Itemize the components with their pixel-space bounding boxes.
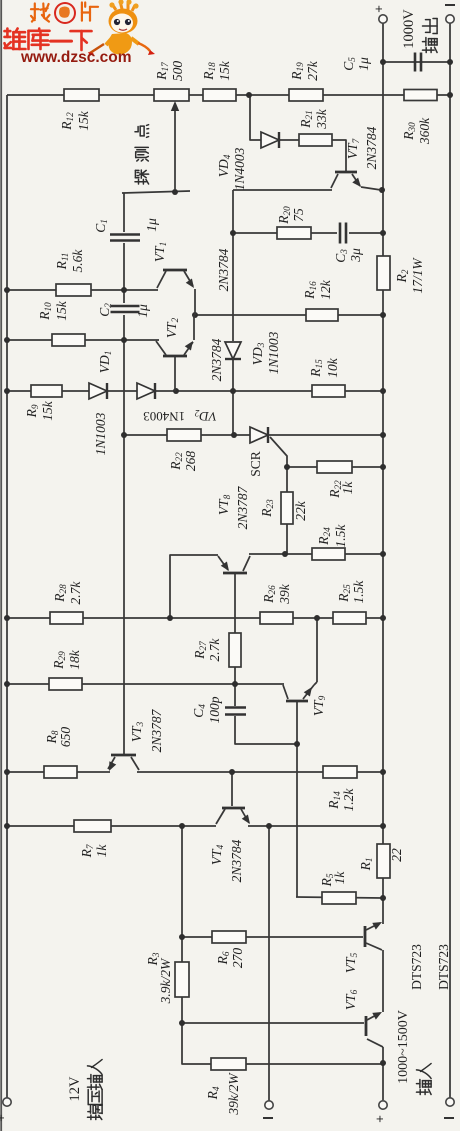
- svg-text:SCR: SCR: [248, 451, 263, 477]
- resistor R14: [323, 766, 357, 811]
- left paper edge line: [0, 0, 2, 1131]
- resistor R28: [50, 581, 83, 624]
- svg-text:15k: 15k: [40, 400, 55, 421]
- resistor R19: [289, 60, 323, 101]
- transistor VT8: [216, 485, 250, 573]
- wire rail A lower (R1 to VT5): [382, 878, 384, 924]
- svg-text:+: +: [371, 5, 386, 13]
- svg-text:2N3784: 2N3784: [229, 839, 244, 882]
- resistor R6: [212, 931, 246, 968]
- node VT2-VD row: [173, 388, 179, 394]
- node railA SCR: [380, 432, 386, 438]
- resistor R9: [24, 385, 62, 421]
- wire R20 row: [234, 232, 337, 234]
- svg-text:500: 500: [170, 61, 185, 82]
- node rail-left R8: [4, 769, 10, 775]
- svg-text:2N3787: 2N3787: [235, 485, 250, 529]
- resistor R16: [302, 279, 338, 321]
- label 1000-1500V input: [396, 1010, 431, 1094]
- node VT1e-VT2c: [192, 312, 198, 318]
- node railB C5: [447, 59, 453, 65]
- svg-text:39k/2W: 39k/2W: [226, 1072, 241, 1116]
- wire R23 to R24 row: [286, 524, 288, 554]
- svg-text:2N3784: 2N3784: [364, 126, 379, 169]
- test point arrow: [171, 101, 179, 190]
- resistor R8: [44, 727, 77, 778]
- wire SCR cathode to rail A: [269, 434, 383, 436]
- node R26-R25: [314, 615, 320, 621]
- wire VD3 column lower: [232, 359, 234, 435]
- wire R5 row: [296, 897, 383, 898]
- svg-text:18k: 18k: [67, 649, 82, 670]
- resistor R12: [59, 89, 99, 131]
- resistor R24: [312, 524, 348, 560]
- svg-text:1k: 1k: [94, 844, 109, 858]
- label 1000V output: [401, 9, 437, 53]
- node R3-bottom: [179, 1020, 185, 1026]
- transistor VT7: [331, 126, 381, 190]
- wire C1-C2 link: [123, 243, 125, 303]
- wire SCR gate: [270, 437, 287, 492]
- node railB R30: [447, 92, 453, 98]
- capacitor C5: [341, 53, 421, 72]
- wire R8 row: [7, 771, 110, 773]
- svg-text:3.9k/2W: 3.9k/2W: [158, 957, 173, 1004]
- diode VD2: [137, 383, 217, 424]
- node R27-bottom: [232, 681, 238, 687]
- capacitor C2: [97, 303, 150, 318]
- capacitor C1: [93, 218, 159, 240]
- svg-text:17/1W: 17/1W: [410, 257, 425, 294]
- wire VD3 column upper: [232, 190, 234, 341]
- transistor VT3: [106, 708, 164, 772]
- wire left rail vertical: [6, 95, 8, 1098]
- resistor R23: [259, 492, 308, 524]
- wire R10 row: [7, 339, 159, 341]
- wire output rail A vertical: [382, 23, 384, 844]
- wire R27 to C4 node: [234, 667, 236, 706]
- capacitor C4: [191, 696, 246, 723]
- node railA C5: [380, 59, 386, 65]
- resistor R20: [276, 206, 311, 239]
- svg-text:270: 270: [230, 948, 245, 969]
- terminal + bottom-left: [0, 1098, 11, 1122]
- node railA C3: [380, 230, 386, 236]
- transistor VT1: [152, 242, 231, 315]
- resistor R22b: [317, 461, 355, 499]
- svg-text:+: +: [0, 1114, 8, 1122]
- wire VT3 collector to R14 row: [137, 771, 383, 773]
- resistor R26: [260, 583, 293, 624]
- resistor R18: [201, 60, 236, 101]
- terminal - top: [445, 5, 455, 23]
- svg-text:2.7k: 2.7k: [68, 581, 83, 605]
- node R3-R6: [179, 934, 185, 940]
- wire R3 column upper: [181, 826, 183, 962]
- label 12V input: [67, 1060, 102, 1120]
- transistor VT5: [343, 919, 384, 974]
- node VD3-R20: [230, 230, 236, 236]
- svg-text:www.dzsc.com: www.dzsc.com: [20, 49, 132, 66]
- wire R3 column lower: [181, 997, 183, 1023]
- node VD3-R15 row: [230, 388, 236, 394]
- svg-text:5.6k: 5.6k: [70, 249, 85, 273]
- watermark dzsc logo: [5, 0, 156, 66]
- resistor R5: [319, 871, 356, 904]
- node rail-left R29: [4, 681, 10, 687]
- node VT4 base: [229, 769, 235, 775]
- resistor R21: [298, 108, 332, 146]
- resistor R15: [308, 357, 345, 397]
- wire VD4-R21 row: [279, 139, 299, 141]
- svg-text:1N1003: 1N1003: [266, 331, 281, 374]
- svg-text:27k: 27k: [305, 60, 320, 81]
- diode VD4: [216, 132, 279, 190]
- svg-text:33k: 33k: [314, 108, 329, 130]
- resistor R3: [145, 952, 189, 1004]
- wire C4 bottom link: [235, 716, 296, 744]
- node railA R4: [380, 1060, 386, 1066]
- resistor R10: [37, 300, 85, 346]
- svg-text:1000V: 1000V: [401, 9, 417, 49]
- wire C3 to rail A: [349, 232, 383, 234]
- svg-text:650: 650: [58, 727, 73, 748]
- resistor R27: [192, 633, 241, 667]
- label DTS723 pair: [409, 944, 451, 990]
- SCR thyristor: [248, 427, 268, 477]
- resistor R22a: [167, 429, 201, 471]
- svg-text:75: 75: [291, 208, 306, 222]
- svg-text:2N3787: 2N3787: [149, 708, 164, 752]
- wire R4 row: [182, 1023, 383, 1064]
- svg-text:10k: 10k: [325, 357, 340, 378]
- svg-text:1N1003: 1N1003: [93, 412, 108, 455]
- node rail-left R10: [4, 337, 10, 343]
- node railA VT4row: [380, 823, 386, 829]
- node testpoint-VT1 base: [172, 189, 178, 195]
- wire rail A VT5-VT6 link: [382, 950, 384, 1012]
- resistor R2: [377, 256, 425, 294]
- svg-text:1k: 1k: [340, 481, 355, 495]
- svg-text:DTS723: DTS723: [409, 944, 424, 990]
- resistor R17: [154, 61, 189, 101]
- svg-text:268: 268: [183, 451, 198, 472]
- node railA R22b: [380, 464, 386, 470]
- svg-text:1.5k: 1.5k: [351, 580, 366, 604]
- node railA R15: [380, 388, 386, 394]
- svg-text:DTS723: DTS723: [436, 944, 451, 990]
- node railA R16: [380, 312, 386, 318]
- node railA VT7e: [379, 187, 385, 193]
- terminal + top: [371, 5, 387, 23]
- wire R21 to VT7 base: [332, 140, 346, 171]
- node R17-R18 junction: [246, 92, 252, 98]
- wire C5 row: [383, 61, 450, 63]
- svg-text:100p: 100p: [207, 696, 222, 723]
- svg-text:12k: 12k: [318, 279, 333, 300]
- node railA R5: [380, 895, 386, 901]
- wire R7 row: [7, 825, 216, 827]
- node rail-left R9: [4, 388, 10, 394]
- resistor R1: [358, 844, 404, 878]
- resistor R29: [49, 649, 82, 690]
- svg-text:1μ: 1μ: [135, 304, 150, 318]
- node railA R25: [380, 615, 386, 621]
- wire R22b row: [287, 466, 383, 468]
- wire R18-R19 junction drop: [250, 95, 261, 140]
- terminal - bottom-right: [444, 1098, 454, 1118]
- diode VD3: [225, 331, 281, 374]
- wire rail A bottom to + terminal: [382, 1047, 384, 1100]
- svg-text:1.5k: 1.5k: [333, 524, 348, 548]
- wire R29 row: [7, 683, 284, 685]
- wire C2 to VT3 base column: [123, 315, 125, 754]
- diode VD1: [89, 351, 113, 456]
- wire top row (R12/R17/R18/R19/R30 rail): [7, 94, 450, 96]
- wire R11 row: [7, 289, 158, 291]
- wire VT8 emitter branch: [170, 555, 218, 618]
- node R23-R24: [282, 551, 288, 557]
- wire diode row R9-R15: [7, 390, 383, 392]
- wire minus mid column: [268, 826, 270, 1101]
- svg-text:15k: 15k: [76, 110, 91, 131]
- wire VT9 collector column: [296, 702, 298, 897]
- node R7-branch: [179, 823, 185, 829]
- wire R24 row: [249, 553, 383, 555]
- wire VT4 emitter to rail A: [248, 825, 383, 827]
- wire R22a row: [124, 434, 250, 436]
- wire R6 row VT5 base: [182, 936, 363, 938]
- node C2-R10: [121, 337, 127, 343]
- wire R16 row: [195, 314, 383, 316]
- node railA R24: [380, 551, 386, 557]
- svg-text:VD2 1N4003: VD2 1N4003: [143, 408, 216, 424]
- node VT8 emitter branch: [167, 615, 173, 621]
- svg-text:360k: 360k: [417, 117, 432, 145]
- svg-text:1μ: 1μ: [144, 218, 159, 232]
- wire test point stub: [122, 191, 190, 193]
- svg-text:1.2k: 1.2k: [341, 788, 356, 812]
- svg-text:1k: 1k: [332, 871, 347, 885]
- resistor R30: [401, 90, 437, 146]
- node SCR gate: [284, 464, 290, 470]
- svg-text:15k: 15k: [54, 300, 69, 321]
- wire VT9 emitter column: [316, 618, 318, 682]
- svg-text:22: 22: [389, 848, 404, 862]
- node R22a-left: [121, 432, 127, 438]
- wire C1 column top: [123, 193, 125, 232]
- svg-text:39k: 39k: [277, 583, 292, 605]
- wire VT8 base to R27: [234, 574, 236, 633]
- node railA R14: [380, 769, 386, 775]
- capacitor C3: [333, 223, 363, 263]
- svg-text:1μ: 1μ: [356, 57, 371, 71]
- node rail-left R11: [4, 287, 10, 293]
- transistor VT2: [156, 315, 224, 391]
- resistor R11: [54, 249, 91, 296]
- wire collector row yp190: [233, 189, 332, 191]
- label tan-ce-dian: [135, 125, 149, 184]
- node VT4 emitter: [266, 823, 272, 829]
- svg-text:1000~1500V: 1000~1500V: [396, 1010, 411, 1084]
- node SCR anode: [231, 432, 237, 438]
- transistor VT6: [343, 989, 384, 1047]
- svg-text:1N4003: 1N4003: [232, 147, 247, 190]
- resistor R7: [74, 820, 111, 858]
- svg-text:22k: 22k: [293, 500, 308, 521]
- terminal - bottom-mid: [263, 1101, 273, 1118]
- resistor R4: [205, 1058, 246, 1116]
- wire R28-R26-R25 row: [7, 617, 383, 619]
- svg-text:12V: 12V: [67, 1076, 83, 1102]
- transistor VT4: [209, 808, 253, 882]
- transistor VT9: [283, 682, 327, 716]
- svg-text:+: +: [372, 1115, 387, 1123]
- svg-text:15k: 15k: [217, 60, 232, 81]
- svg-text:2.7k: 2.7k: [207, 638, 222, 662]
- svg-text:3μ: 3μ: [348, 248, 363, 263]
- node VT9 collector: [294, 741, 300, 747]
- node C1-R11: [121, 287, 127, 293]
- wire output rail B vertical: [449, 23, 451, 1098]
- node rail-left R7: [4, 823, 10, 829]
- terminal + bottom: [372, 1101, 387, 1123]
- wire VT6 base row: [182, 1022, 364, 1024]
- wire VT4 base column: [231, 772, 233, 806]
- node rail-left R28: [4, 615, 10, 621]
- svg-text:2N3784: 2N3784: [216, 248, 231, 291]
- resistor R25: [333, 580, 366, 624]
- svg-text:2N3784: 2N3784: [209, 338, 224, 381]
